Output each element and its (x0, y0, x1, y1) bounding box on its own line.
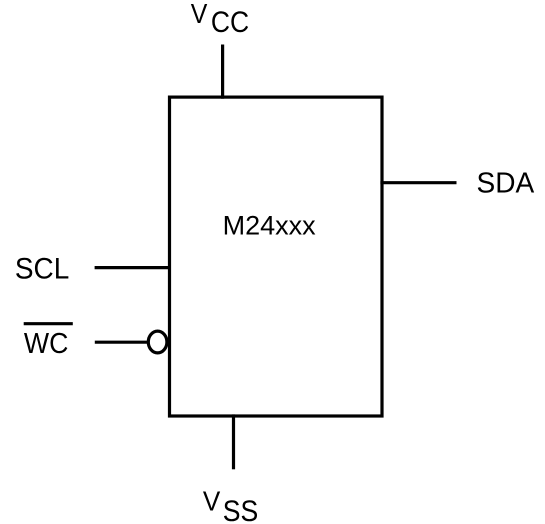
wire SDA pin (380, 181, 456, 184)
label VSS (203, 485, 258, 524)
inversion bubble on WC pin (148, 331, 167, 353)
svg-text:SDA: SDA (477, 168, 535, 200)
svg-text:SS: SS (223, 495, 258, 524)
wire VSS pin (232, 414, 235, 469)
wire VCC pin (221, 45, 224, 99)
svg-text:V: V (203, 485, 221, 516)
label VCC (191, 0, 250, 39)
svg-text:CC: CC (211, 6, 249, 39)
svg-text:M24xxx: M24xxx (223, 211, 317, 241)
svg-text:SCL: SCL (15, 253, 69, 286)
svg-text:V: V (191, 0, 208, 29)
wire WC pin (95, 341, 148, 344)
wire SCL pin (95, 266, 171, 269)
chip U1 body (170, 97, 383, 416)
label WC with overline (24, 324, 73, 360)
svg-text:WC: WC (24, 328, 69, 360)
